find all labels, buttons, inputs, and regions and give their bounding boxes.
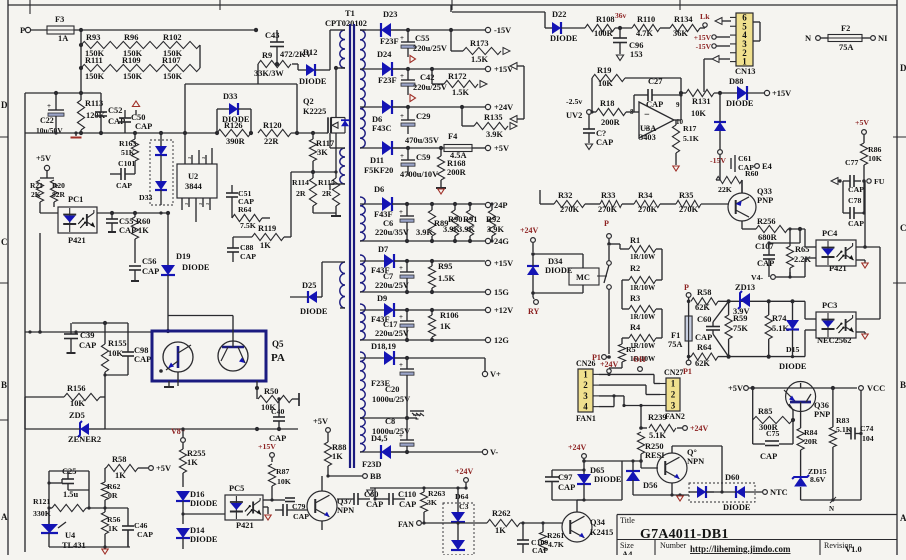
resistor R168 <box>436 148 467 194</box>
wire +5V rail <box>472 144 509 153</box>
svg-text:D56: D56 <box>643 481 657 490</box>
diode D22 <box>545 10 585 43</box>
capacitor C50 <box>119 101 152 133</box>
svg-text:PC1: PC1 <box>68 195 83 204</box>
svg-text:P: P <box>604 219 609 228</box>
wire PC1 out row y213 <box>38 211 170 334</box>
svg-text:http://liheming.jimdo.com: http://liheming.jimdo.com <box>690 544 791 554</box>
resistor R107 <box>160 56 200 81</box>
svg-text:CN26: CN26 <box>576 359 596 368</box>
svg-text:62K: 62K <box>695 359 710 368</box>
url text <box>690 544 791 554</box>
svg-text:F2: F2 <box>841 24 850 33</box>
svg-text:D16: D16 <box>190 490 204 499</box>
svg-text:D7: D7 <box>378 245 388 254</box>
resistor R135 <box>462 107 517 139</box>
svg-text:+15V: +15V <box>258 442 276 451</box>
svg-text:Q2: Q2 <box>303 97 314 106</box>
svg-text:-2.5v: -2.5v <box>566 97 582 106</box>
svg-text:1K: 1K <box>108 524 118 533</box>
transformer T1 pfc winding <box>322 262 345 308</box>
svg-text:62K: 62K <box>695 303 710 312</box>
wire Q emitter rail <box>633 483 689 497</box>
svg-text:CN13: CN13 <box>735 67 755 76</box>
svg-text:8.6V: 8.6V <box>810 475 826 484</box>
svg-text:+15V: +15V <box>694 33 712 42</box>
optocoupler PC5 <box>225 484 263 530</box>
wire R2-R3 <box>622 280 629 309</box>
resistor R9 <box>254 28 291 84</box>
svg-text:C20: C20 <box>385 385 399 394</box>
red ground arrow <box>677 496 683 501</box>
svg-text:C88: C88 <box>240 243 254 252</box>
terminal P1 switch <box>592 353 611 362</box>
wire primary bottom to MOSFET drain <box>334 66 345 118</box>
resistor R88 <box>324 442 346 476</box>
transformer secondary winding 3 <box>360 197 365 241</box>
svg-text:D9: D9 <box>377 294 387 303</box>
svg-text:+24V: +24V <box>494 103 513 112</box>
svg-text:CAP: CAP <box>848 185 864 194</box>
revision value <box>845 544 862 554</box>
svg-text:R64: R64 <box>238 205 252 214</box>
wire C97 bottom rail <box>552 498 622 501</box>
svg-text:V4-: V4- <box>751 273 764 282</box>
bus wire y93 <box>25 91 101 95</box>
svg-text:D88: D88 <box>729 77 743 86</box>
svg-text:100R: 100R <box>594 29 614 38</box>
svg-text:220u/35V: 220u/35V <box>375 228 409 237</box>
resistor R4 <box>629 323 656 350</box>
wire top bus PA <box>72 321 128 325</box>
svg-text:V1.0: V1.0 <box>845 544 862 554</box>
svg-text:C78: C78 <box>848 196 862 205</box>
svg-text:75A: 75A <box>839 43 853 52</box>
wire top rail right <box>451 5 545 28</box>
svg-text:Q5: Q5 <box>272 339 284 349</box>
wire PA right down <box>255 381 259 390</box>
svg-text:R59: R59 <box>733 314 747 323</box>
terminal VCC <box>859 384 886 500</box>
transistor Q5b <box>168 316 248 372</box>
zone letter C left <box>1 237 8 247</box>
svg-text:150K: 150K <box>85 72 105 81</box>
svg-text:10K: 10K <box>598 79 613 88</box>
resistor R126 <box>217 121 251 146</box>
diode D14 <box>176 526 218 549</box>
transformer T1 aux winding <box>330 133 345 190</box>
wire R120 to MOSFET gate <box>291 131 326 135</box>
svg-text:F43C: F43C <box>372 124 392 133</box>
svg-text:D33: D33 <box>223 92 237 101</box>
svg-text:CAP: CAP <box>532 546 548 555</box>
wire R121 left rail <box>47 471 50 529</box>
svg-text:D11: D11 <box>370 156 384 165</box>
wire +12V rail <box>394 306 513 315</box>
svg-text:3.9K: 3.9K <box>458 225 475 234</box>
svg-text:36v: 36v <box>615 11 627 20</box>
svg-text:270K: 270K <box>598 205 618 214</box>
transformer secondary winding 5 <box>360 304 365 340</box>
svg-text:10K: 10K <box>70 399 85 408</box>
wire +15V iso rail <box>394 259 513 268</box>
capacitor C88 <box>227 237 256 262</box>
svg-text:FAN: FAN <box>398 520 414 529</box>
diode D19b <box>161 213 210 331</box>
svg-text:D64: D64 <box>455 492 469 501</box>
svg-text:10K: 10K <box>868 154 882 163</box>
svg-text:VCC: VCC <box>867 384 885 393</box>
svg-text:390R: 390R <box>226 137 246 146</box>
svg-text:R2: R2 <box>630 264 640 273</box>
svg-text:R19: R19 <box>597 66 611 75</box>
diode D7 <box>360 245 407 275</box>
svg-text:R32: R32 <box>558 191 572 200</box>
terminal NTC <box>763 488 788 497</box>
svg-text:R156: R156 <box>67 384 86 393</box>
resistor R113 <box>77 93 105 133</box>
svg-text:CN27: CN27 <box>664 368 684 377</box>
wire C25 top <box>49 471 89 490</box>
svg-text:10K: 10K <box>691 109 706 118</box>
svg-text:+: + <box>399 208 403 216</box>
resistor R102 <box>160 33 200 58</box>
transistor Q5a <box>163 342 193 386</box>
svg-text:Q34: Q34 <box>590 518 606 527</box>
svg-text:NI: NI <box>878 33 888 43</box>
title label <box>620 516 635 525</box>
svg-text:R106: R106 <box>440 311 459 320</box>
svg-text:C17: C17 <box>383 320 397 329</box>
svg-text:C52: C52 <box>108 106 122 115</box>
wire C46 top <box>105 507 128 509</box>
svg-text:0R: 0R <box>108 491 118 500</box>
wire right block bottom rail <box>801 497 861 513</box>
svg-text:+5V: +5V <box>156 464 171 473</box>
svg-text:R87: R87 <box>276 467 290 476</box>
capacitor C20 <box>372 358 414 418</box>
svg-text:NTC: NTC <box>770 488 788 497</box>
diode D60a <box>689 486 714 498</box>
resistor R117 <box>309 133 334 172</box>
svg-text:R163: R163 <box>119 139 136 148</box>
svg-text:+15V: +15V <box>494 259 513 268</box>
svg-text:PC4: PC4 <box>822 229 838 238</box>
transformer T1 core <box>350 24 354 468</box>
capacitor C55 sec <box>400 30 447 57</box>
diode D88 <box>726 77 791 108</box>
svg-text:CAP: CAP <box>240 252 256 261</box>
svg-text:3: 3 <box>583 391 588 401</box>
resistor R35 <box>676 191 729 214</box>
resistor R108 <box>585 15 632 38</box>
PC4 wires <box>790 181 880 319</box>
svg-text:3.9K: 3.9K <box>487 225 504 234</box>
svg-text:+5V: +5V <box>728 384 743 393</box>
svg-text:R60: R60 <box>136 217 150 226</box>
svg-text:R17: R17 <box>683 124 697 133</box>
svg-text:+12V: +12V <box>494 306 513 315</box>
svg-text:3K: 3K <box>317 148 328 157</box>
svg-text:K2415: K2415 <box>590 528 613 537</box>
svg-text:+15V: +15V <box>772 89 791 98</box>
capacitor C96 <box>613 28 643 61</box>
dashed box D60 <box>689 473 755 502</box>
svg-text:3.9K: 3.9K <box>486 130 503 139</box>
terminal +24V cn26 <box>600 360 619 374</box>
transistor Q NPN <box>641 448 704 483</box>
svg-text:F23F: F23F <box>380 37 399 46</box>
diode D65 <box>577 461 622 500</box>
title text G7A4011-DB1 <box>640 527 729 542</box>
svg-text:1.5K: 1.5K <box>471 55 488 64</box>
svg-text:Q33: Q33 <box>757 187 772 196</box>
dashed box D64 C3 <box>443 492 474 555</box>
svg-text:1: 1 <box>742 57 747 67</box>
capacitor C60 <box>695 301 729 356</box>
svg-text:R168: R168 <box>447 159 466 168</box>
diode D15 <box>786 301 800 358</box>
svg-text:DIODE: DIODE <box>550 34 578 43</box>
left rail <box>24 93 26 552</box>
svg-text:2.2K: 2.2K <box>794 255 811 264</box>
transformer T1 label <box>325 9 367 28</box>
svg-text:R121: R121 <box>33 497 50 506</box>
svg-text:10K: 10K <box>108 349 123 358</box>
svg-text:CAP: CAP <box>760 452 777 461</box>
svg-text:CPT020102: CPT020102 <box>325 19 367 28</box>
svg-text:NEC2562: NEC2562 <box>817 336 851 345</box>
resistor R131 <box>686 89 737 118</box>
fuse F4 <box>392 132 472 160</box>
svg-text:D34: D34 <box>548 257 563 266</box>
svg-text:2: 2 <box>671 390 676 400</box>
svg-text:C22: C22 <box>40 116 54 125</box>
svg-text:D60: D60 <box>725 473 739 482</box>
revision label <box>824 541 852 550</box>
title block frame <box>617 515 897 556</box>
svg-text:CAP: CAP <box>137 530 153 539</box>
svg-text:R114: R114 <box>292 178 309 187</box>
svg-text:R5: R5 <box>626 345 636 354</box>
svg-text:U2: U2 <box>188 172 198 181</box>
resistor R3 <box>629 294 656 321</box>
capacitor C75 <box>753 420 793 461</box>
terminal V8+ b <box>171 427 186 449</box>
svg-text:+24V: +24V <box>690 424 709 433</box>
terminal BB <box>328 472 382 481</box>
svg-text:R262: R262 <box>492 509 511 518</box>
svg-text:P421: P421 <box>236 521 254 530</box>
svg-text:R58: R58 <box>112 455 126 464</box>
capacitor C29 <box>400 107 439 145</box>
svg-text:R3: R3 <box>630 294 640 303</box>
resistor R21 <box>30 178 58 213</box>
wire PC5 top out <box>263 486 295 502</box>
capacitor C42 <box>400 69 447 95</box>
svg-text:+24V: +24V <box>455 467 474 476</box>
terminal RY <box>528 297 539 316</box>
svg-text:+5V: +5V <box>313 417 328 426</box>
svg-text:R117: R117 <box>316 139 334 148</box>
resistor R20 <box>50 180 65 207</box>
wire D33b verticals <box>160 133 162 205</box>
resistor R95 <box>428 261 455 292</box>
svg-text:200R: 200R <box>447 168 467 177</box>
svg-text:ZD5: ZD5 <box>69 411 85 420</box>
diode D56 <box>622 459 657 495</box>
svg-text:ZENER2: ZENER2 <box>68 435 101 444</box>
resistor R93 <box>81 33 120 58</box>
capacitor C40 <box>269 397 286 443</box>
svg-text:CAP: CAP <box>293 512 309 521</box>
shunt U4 TL431 <box>41 508 86 550</box>
svg-text:CAP: CAP <box>116 181 132 190</box>
svg-text:R34: R34 <box>638 191 653 200</box>
svg-text:C61: C61 <box>738 154 752 163</box>
svg-text:N: N <box>805 33 812 43</box>
resistor R19 <box>592 66 681 112</box>
svg-text:10K: 10K <box>277 477 291 486</box>
svg-text:NPN: NPN <box>687 457 704 466</box>
terminal +24V fan <box>455 467 474 488</box>
svg-text:C8: C8 <box>385 417 395 426</box>
svg-text:D18,19: D18,19 <box>371 342 396 351</box>
svg-text:1K: 1K <box>260 241 271 250</box>
zener ZD5 <box>25 397 105 444</box>
text -15V red <box>710 156 726 165</box>
resistor R115 <box>318 172 340 213</box>
svg-text:R107: R107 <box>162 56 181 65</box>
capacitor C109 <box>517 521 548 555</box>
diode D64 bottom <box>451 522 465 550</box>
wire R119 row <box>233 172 291 237</box>
svg-text:C59: C59 <box>416 153 430 162</box>
svg-text:+5V: +5V <box>494 144 509 153</box>
resistor R89 <box>416 204 448 241</box>
svg-text:C75: C75 <box>766 429 780 438</box>
transistor Q33 PNP <box>728 180 773 229</box>
wire center tap <box>360 416 409 420</box>
svg-text:DIODE: DIODE <box>594 475 622 484</box>
terminal +24V c97 <box>568 443 587 461</box>
svg-text:220u/25V: 220u/25V <box>375 329 409 338</box>
svg-text:+: + <box>400 72 404 80</box>
svg-text:CAP: CAP <box>142 267 159 276</box>
svg-text:4700u/10V: 4700u/10V <box>400 170 438 179</box>
svg-text:T1: T1 <box>345 9 355 18</box>
resistor R256 <box>756 217 805 242</box>
diode D33b lower <box>139 181 167 202</box>
capacitor C56 <box>129 257 159 281</box>
svg-text:R21: R21 <box>30 181 43 190</box>
zone tick marks on side borders <box>0 137 906 420</box>
svg-text:R131: R131 <box>692 97 711 106</box>
zener ZD13 <box>733 283 755 316</box>
dashed box around D33 snubber <box>150 140 173 205</box>
svg-text:PC5: PC5 <box>229 484 244 493</box>
svg-text:P421: P421 <box>829 264 847 273</box>
svg-text:C77: C77 <box>845 158 859 167</box>
text 36v <box>615 11 627 20</box>
svg-text:-15V: -15V <box>494 26 511 35</box>
svg-text:36K: 36K <box>673 29 688 38</box>
svg-text:A: A <box>1 512 8 522</box>
diode D6 <box>360 100 408 133</box>
diode D18 D19 <box>360 342 407 388</box>
svg-text:CAP: CAP <box>695 333 712 342</box>
svg-text:R126: R126 <box>224 121 243 130</box>
svg-text:R110: R110 <box>637 15 655 24</box>
svg-text:D65: D65 <box>590 466 604 475</box>
svg-text:C39: C39 <box>80 331 94 340</box>
svg-text:R91: R91 <box>463 215 477 224</box>
svg-text:F23F: F23F <box>378 76 397 85</box>
wire -15V rail <box>391 26 511 35</box>
svg-text:F4: F4 <box>448 132 458 141</box>
svg-text:1A: 1A <box>58 34 68 43</box>
svg-text:C29: C29 <box>416 112 430 121</box>
resistor R172 <box>432 69 487 97</box>
svg-text:4.7K: 4.7K <box>636 29 653 38</box>
terminal +15V c <box>258 442 276 462</box>
svg-text:CAP: CAP <box>757 259 774 268</box>
svg-text:Title: Title <box>620 516 635 525</box>
svg-text:1R/10W: 1R/10W <box>630 253 656 261</box>
resistor R155 <box>101 323 126 385</box>
diode D11 <box>360 141 408 175</box>
wire FAN2 down to R239 <box>640 410 642 428</box>
box around U2 upper <box>185 84 297 133</box>
svg-text:+: + <box>399 432 403 440</box>
transformer secondary winding 6 <box>360 352 365 418</box>
wire bus y133 <box>25 131 217 135</box>
svg-text:B: B <box>900 380 906 390</box>
svg-text:270K: 270K <box>560 205 580 214</box>
svg-text:75A: 75A <box>668 340 682 349</box>
resistor R65 <box>786 227 811 277</box>
svg-text:CAP: CAP <box>79 341 96 350</box>
capacitor C22 <box>36 93 64 135</box>
svg-text:R250: R250 <box>645 442 664 451</box>
svg-text:D25: D25 <box>302 281 316 290</box>
svg-text:Lk: Lk <box>700 12 710 21</box>
svg-text:+: + <box>399 264 403 272</box>
svg-text:C: C <box>1 237 8 247</box>
svg-text:D24: D24 <box>377 50 392 59</box>
+5V terminal left <box>36 154 51 178</box>
zener ZD15 <box>792 467 827 500</box>
svg-text:UV2: UV2 <box>566 111 582 120</box>
terminal Lk <box>700 12 731 27</box>
svg-text:FU: FU <box>874 177 885 186</box>
svg-text:220u/25V: 220u/25V <box>413 44 447 53</box>
svg-text:+: + <box>400 152 404 160</box>
svg-text:U4: U4 <box>65 531 76 540</box>
wire D16 to PC5 <box>183 513 225 515</box>
red arrow under C55 <box>410 55 416 62</box>
transformer T1 primary winding <box>340 30 345 68</box>
svg-text:1R/10W: 1R/10W <box>630 313 656 321</box>
resistor R262 <box>487 509 562 535</box>
svg-text:CAP: CAP <box>596 138 613 147</box>
svg-text:1K: 1K <box>332 452 343 461</box>
svg-text:R74: R74 <box>772 314 787 323</box>
svg-text:R173: R173 <box>470 39 489 48</box>
svg-text:153: 153 <box>630 50 643 59</box>
svg-text:12G: 12G <box>494 336 509 345</box>
svg-text:PNP: PNP <box>814 410 830 419</box>
